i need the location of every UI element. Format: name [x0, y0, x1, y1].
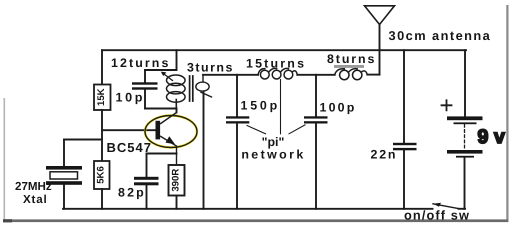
resistor R3 390R — [169, 165, 185, 196]
plus sign — [442, 100, 452, 110]
svg-text:9v: 9v — [478, 126, 511, 148]
wire left vertical middle — [101, 110, 103, 161]
wire crystal top — [63, 140, 65, 167]
pointer pi to 150p — [247, 126, 266, 134]
svg-text:12turns: 12turns — [111, 56, 170, 70]
wire 390R bottom — [176, 196, 178, 209]
wire pi rail left — [203, 74, 258, 76]
svg-text:22n: 22n — [371, 147, 398, 161]
capacitor C5 82p top — [146, 154, 148, 177]
wire pi rail right — [367, 74, 379, 76]
arrow tuning slug — [163, 73, 173, 80]
battery plates — [447, 116, 483, 157]
svg-text:Xtal: Xtal — [23, 193, 47, 206]
svg-text:8turns: 8turns — [327, 52, 376, 66]
wire top rail — [102, 49, 466, 51]
svg-text:82p: 82p — [118, 186, 146, 200]
svg-text:15turns: 15turns — [246, 56, 306, 70]
wire bottom rail right stub — [459, 208, 466, 210]
wire secondary ground — [203, 92, 205, 209]
capacitor C1 10p — [132, 82, 158, 89]
crystal X1 27MHz — [46, 166, 82, 185]
transformer core — [190, 76, 193, 101]
capacitor C4 22n branch bottom — [403, 150, 405, 209]
wire crystal bottom — [63, 185, 65, 209]
wire crystal link — [64, 139, 102, 141]
inductor L3 15 turns — [258, 68, 297, 79]
transistor Q1 BC547 — [145, 113, 197, 166]
capacitor C3 100p branch top — [315, 75, 317, 117]
inductor L2 3 turns secondary — [196, 75, 212, 97]
wire base lead — [102, 129, 156, 131]
antenna triangle — [365, 6, 395, 25]
frame bottom shadow — [3, 219, 508, 222]
svg-text:390R: 390R — [170, 169, 181, 192]
svg-text:15K: 15K — [96, 88, 107, 106]
base bar — [156, 121, 161, 140]
svg-text:27MHz: 27MHz — [15, 180, 52, 193]
ferrite rod 8 turns — [334, 65, 364, 68]
battery negative lead — [464, 158, 466, 209]
svg-text:30cm antenna: 30cm antenna — [389, 28, 492, 43]
wire tank top — [145, 69, 177, 71]
emitter arrow — [166, 136, 176, 144]
svg-text:network: network — [241, 147, 305, 161]
capacitor C5 82p bottom — [146, 185, 148, 209]
svg-text:5K6: 5K6 — [95, 166, 106, 184]
svg-text:150p: 150p — [241, 98, 280, 112]
svg-text:on/off sw: on/off sw — [404, 207, 470, 222]
wire left vertical upper — [101, 50, 103, 84]
svg-text:10p: 10p — [116, 90, 146, 104]
svg-text:BC547: BC547 — [107, 140, 152, 155]
wire tank left lower — [144, 90, 146, 109]
capacitor C3 100p branch bottom — [315, 124, 317, 209]
switch arrowhead — [433, 203, 441, 207]
resistor R1 15K — [94, 85, 111, 111]
inductor L4 8 turns — [335, 69, 368, 80]
wire tank feed — [176, 50, 178, 70]
svg-text:100p: 100p — [320, 101, 357, 115]
battery dashed middle — [464, 125, 466, 150]
transistor Q1 emitter link — [147, 153, 177, 155]
frame right border — [506, 5, 508, 222]
wire coil bottom link — [175, 100, 177, 109]
collector lead — [160, 113, 177, 125]
capacitor C2 150p branch bottom — [236, 124, 238, 209]
svg-text:3turns: 3turns — [187, 61, 234, 75]
switch on/off — [433, 204, 459, 209]
wire tank bottom — [145, 108, 177, 110]
resistor R2 5K6 — [94, 161, 110, 189]
frame left border — [4, 98, 6, 222]
pointer pi to coil — [280, 80, 282, 134]
emitter lead — [160, 136, 177, 165]
pointer pi to 100p — [289, 125, 305, 134]
capacitor C2 150p branch top — [236, 75, 238, 117]
inductor L1 12 turns primary — [167, 75, 186, 102]
wire pi rail middle — [297, 74, 334, 76]
capacitor C4 22n branch top — [403, 50, 405, 143]
wire bottom rail — [63, 208, 433, 210]
antenna stem — [379, 25, 381, 75]
wire left vertical lower — [101, 189, 103, 209]
wire collector — [176, 109, 178, 113]
wire tank left upper — [144, 70, 146, 83]
battery B1 positive lead — [464, 50, 466, 116]
